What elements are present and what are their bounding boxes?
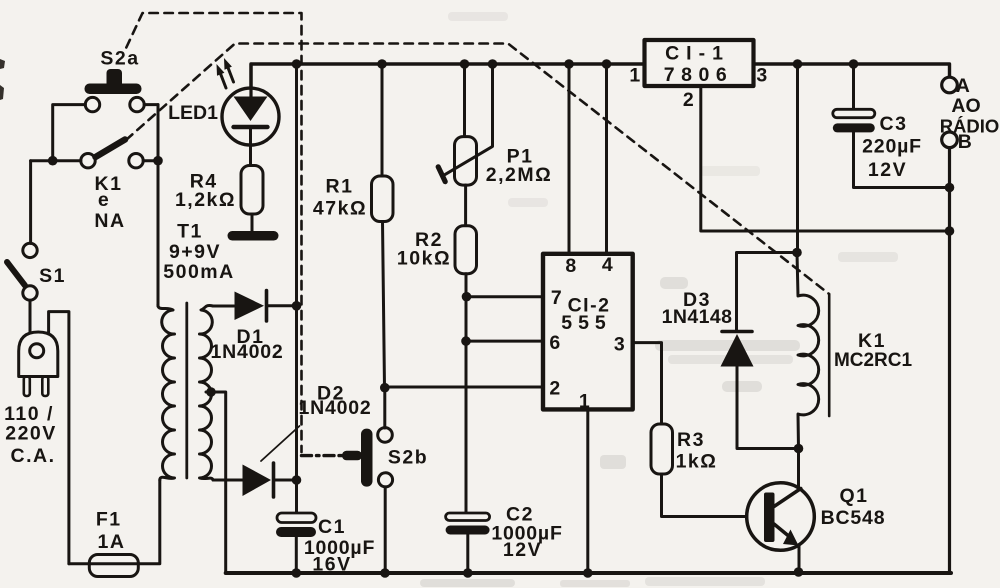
relay contact K1 circles (81, 154, 95, 168)
wire: R4 to ground bar (251, 214, 254, 232)
wire: 555 pin 3 to R3 (633, 343, 662, 424)
svg-text:A: A (956, 75, 972, 97)
capacitor C1 plates (277, 513, 316, 523)
LED1 light arrows (221, 74, 226, 88)
potentiometer P1 wiper end bar (438, 167, 445, 182)
svg-text:500mA: 500mA (163, 261, 234, 283)
node: bus junction at 555 pin 8 (564, 59, 574, 69)
svg-text:16V: 16V (312, 554, 351, 576)
wire: 555 pin 8 to bus (568, 64, 571, 254)
switch S1 arm (7, 262, 25, 286)
switch S2b button stem (342, 451, 362, 461)
svg-text:MC2RC1: MC2RC1 (834, 350, 913, 371)
wire: K1 lower-right contact to right column (143, 159, 158, 162)
resistor R1 body (372, 176, 394, 222)
wire: left column down to S1 (29, 161, 32, 244)
switch S2b button bar (361, 429, 373, 487)
transistor Q1 circle (747, 483, 815, 551)
svg-text:R3: R3 (677, 429, 705, 451)
plug P110/220 body (19, 332, 58, 377)
svg-text:12V: 12V (868, 159, 907, 181)
wire: 555 pin 2 to S2b node (385, 386, 543, 389)
wire: emitter down to ground bus (798, 546, 801, 573)
potentiometer P1 body (455, 137, 477, 186)
relay K1 coil (797, 253, 819, 449)
svg-text:C.A.: C.A. (11, 445, 56, 467)
svg-text:F1: F1 (96, 509, 122, 531)
LED1 body circle (222, 88, 279, 145)
node: D1 output (292, 301, 302, 311)
wire: collector up to relay node (797, 449, 800, 491)
node: S2b on ground bus (380, 568, 390, 578)
IC CI-2 555 box (543, 254, 633, 410)
svg-text:C1: C1 (318, 516, 346, 538)
transformer T1 core (185, 303, 188, 478)
relay contact K1 movable arm (96, 140, 126, 158)
node: CI-1 pin2 return on right edge (945, 226, 955, 236)
svg-text:1,2kΩ: 1,2kΩ (175, 189, 236, 211)
svg-text:10kΩ: 10kΩ (397, 248, 451, 270)
wire: R2 down to C2 (through pins 7 and 6 nodes) (465, 274, 468, 513)
wire: R1 to pin2 node (383, 222, 385, 388)
svg-text:NA: NA (94, 210, 125, 232)
wire: pin2 node to S2b (383, 388, 386, 428)
svg-text:2,2MΩ: 2,2MΩ (486, 164, 553, 186)
node: T1 center tap (206, 387, 216, 397)
svg-text:R1: R1 (326, 176, 354, 198)
LED1 wire into circle (249, 64, 252, 97)
svg-text:7806: 7806 (664, 64, 733, 86)
node: C2 on ground bus (463, 568, 473, 578)
svg-text:2: 2 (683, 89, 695, 111)
wire: node to D3 cathode (737, 253, 798, 331)
wire: D2 cathode to node (275, 479, 297, 482)
node: Q1 emitter on ground bus (794, 567, 804, 577)
relay K1 armature line (828, 294, 831, 416)
transistor Q1 emitter stroke with arrow (774, 524, 788, 536)
svg-text:8: 8 (565, 255, 577, 277)
svg-text:LED1: LED1 (168, 102, 218, 124)
transformer T1 primary winding (158, 304, 175, 480)
wire: relay branch from bus (796, 64, 799, 253)
svg-text:1N4002: 1N4002 (210, 341, 283, 363)
wire: bottom ground bus (226, 571, 951, 575)
svg-text:B: B (958, 131, 974, 153)
svg-text:S2a: S2a (100, 48, 139, 70)
resistor R3 body (651, 424, 673, 474)
switch S2b contact circles (378, 428, 393, 443)
svg-text:12V: 12V (503, 539, 542, 561)
svg-text:S2b: S2b (388, 447, 428, 469)
node: C3 return on right edge (945, 183, 955, 193)
node: bus junction at 555 pin 4 (602, 59, 612, 69)
node: D2 output (292, 475, 302, 485)
capacitor C3 branch from bus (852, 64, 855, 110)
wire: S2a top-right contact to right column (144, 103, 158, 106)
capacitor C2 plates (446, 513, 490, 521)
wire: secondary top to D1 (213, 305, 234, 308)
wire: 555 pin 6 (466, 340, 543, 343)
node: bus junction at P1 top (460, 59, 470, 69)
svg-text:e: e (98, 189, 110, 211)
node: relay coil bottom junction (794, 444, 804, 454)
node: 555 pin 6 junction (461, 336, 471, 346)
LED1 cathode bar (234, 125, 268, 129)
svg-text:BC548: BC548 (821, 507, 886, 529)
svg-text:6: 6 (549, 332, 561, 354)
resistor R4 body (241, 166, 263, 215)
node: bus junction at D1/C1 column (292, 59, 302, 69)
wire: right column down to T1 primary top (157, 105, 160, 306)
node: C1 on ground bus (292, 568, 302, 578)
resistor R2 body (455, 226, 477, 274)
svg-text:1: 1 (629, 65, 641, 87)
switch S2a contact circles (85, 97, 99, 111)
transistor Q1 collector stroke (774, 489, 801, 507)
wire: C1 to ground bus (295, 537, 298, 573)
wire: rectifier output column bus to C1 (295, 64, 298, 513)
svg-text:K1: K1 (858, 330, 886, 352)
wire: P1 to R2 (464, 185, 467, 226)
svg-text:3: 3 (756, 65, 768, 87)
svg-text:9+9V: 9+9V (169, 241, 221, 263)
node: 555 pin1 on ground bus (583, 568, 593, 578)
terminal B circle (942, 132, 958, 148)
node: pin 2 / S2b / R1 junction (380, 383, 390, 393)
wire: R3 to Q1 base (662, 474, 765, 517)
svg-text:1A: 1A (98, 531, 126, 553)
wire: S1 to plug (29, 300, 32, 333)
svg-text:1: 1 (579, 391, 591, 413)
capacitor C3 plates (833, 109, 875, 117)
wire: D3 anode down to coil bottom node (737, 367, 799, 449)
wire: terminal B down right edge to bottom bus (948, 148, 951, 574)
wire: 555 pin 4 to bus (605, 64, 608, 254)
wire: S2a top-left contact to K1 contact node (53, 105, 86, 161)
svg-text:47kΩ: 47kΩ (313, 198, 367, 220)
svg-text:1N4148: 1N4148 (662, 306, 733, 328)
svg-text:4: 4 (602, 254, 614, 276)
dashed mechanical linkage: S2a to S2b vertical run (126, 13, 301, 452)
wire: 555 pin 7 (467, 295, 544, 298)
page edge artifacts (0, 59, 5, 100)
node: bus junction at C3 (849, 59, 859, 69)
wire: P1 top (463, 64, 466, 137)
node: 555 pin 7 junction (462, 292, 472, 302)
svg-text:1kΩ: 1kΩ (676, 451, 718, 473)
node: bus junction at R1 (377, 59, 387, 69)
svg-text:3: 3 (614, 334, 626, 356)
wire: LED1 to R4 (249, 129, 252, 166)
wire: secondary bottom to D2 (213, 479, 243, 482)
wire: R1 column (381, 64, 384, 176)
node: junction right of K1 contact (153, 156, 163, 166)
svg-text:CI-1: CI-1 (665, 43, 730, 65)
diode D1 1N4002 (235, 292, 265, 321)
terminal A circle (942, 77, 958, 93)
wire: S2b to ground bus (384, 487, 387, 573)
label pointer line for D2 (261, 426, 300, 461)
switch S2a pushbutton cap (107, 69, 123, 88)
svg-text:1N4002: 1N4002 (298, 397, 371, 419)
LED1 triangle (234, 97, 268, 122)
dash-dot link into S2b (302, 454, 343, 457)
wire: plug second lead up and over to fuse column (49, 312, 69, 564)
wire: C3 return to right edge (854, 132, 950, 187)
svg-text:AO: AO (951, 95, 980, 117)
svg-text:7: 7 (551, 287, 563, 309)
svg-text:Q1: Q1 (839, 485, 868, 507)
switch S1 contact circles (23, 243, 37, 257)
wire: top supply bus from LED1 to CI-1 pin 1 (251, 64, 644, 96)
transformer T1 secondary winding (200, 305, 214, 480)
wire: 555 pin 1 to ground bus (586, 409, 589, 573)
potentiometer P1 wiper from bus (442, 64, 493, 176)
svg-text:220V: 220V (5, 423, 57, 445)
wire: node to K1 lower-left contact and left to S1 column (31, 159, 81, 162)
svg-text:2: 2 (549, 378, 561, 400)
wire: D1 cathode to node (268, 304, 297, 307)
wire: CI-1 pin 2 down and right to terminal B column (701, 86, 950, 231)
diode D2 1N4002 (243, 465, 272, 497)
diode D3 1N4148 triangle (721, 334, 754, 367)
fuse F1 body (89, 555, 138, 577)
svg-text:555: 555 (561, 312, 612, 334)
node: relay top junction (792, 248, 802, 258)
svg-text:220µF: 220µF (862, 136, 922, 158)
IC CI-1 7806 box (645, 40, 754, 86)
wire: bus from CI-1 pin 3 to terminal A (754, 64, 950, 77)
svg-text:T1: T1 (177, 221, 203, 243)
svg-text:C3: C3 (880, 113, 908, 135)
dashed mechanical linkage: K1 contacts to relay armature (126, 44, 829, 294)
svg-text:S1: S1 (39, 265, 66, 287)
wire: center-tap of T1 down to left end of ground bus (206, 392, 226, 573)
wire: C2 to ground bus (466, 535, 469, 574)
node: bus junction at P1 wiper (488, 59, 498, 69)
ground bar under R4 (228, 231, 279, 241)
transistor Q1 base bar (764, 493, 775, 543)
plug prongs (24, 377, 30, 397)
node: bus junction to relay branch (793, 59, 803, 69)
node: junction left of K1 contact (48, 156, 58, 166)
wire: fuse feed line (69, 480, 160, 564)
diode D3 1N4148 cathode bar (722, 330, 752, 334)
